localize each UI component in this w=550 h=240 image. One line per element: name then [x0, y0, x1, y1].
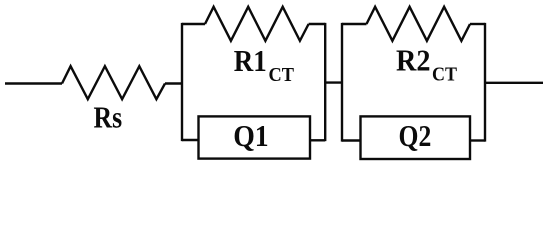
wire: block 2 left vertical junction [341, 23, 343, 142]
svg-text:Q2: Q2 [399, 118, 432, 153]
wire: block 2 bottom-right horizontal [470, 139, 485, 141]
wire: right lead [485, 82, 543, 84]
wire: block 1 bottom-right horizontal [310, 139, 325, 141]
resistor Rs [62, 66, 165, 99]
wire: block 2 right vertical junction [484, 23, 486, 142]
resistor R2_CT [367, 7, 471, 41]
wire: block 2 top-right horizontal [470, 23, 485, 25]
wire: left lead [5, 82, 62, 84]
svg-text:CT: CT [269, 64, 295, 86]
wire: block 2 bottom-left horizontal [342, 139, 361, 141]
wire: Rs to parallel block 1 (node A) [165, 82, 182, 84]
svg-text:Q1: Q1 [233, 118, 269, 153]
wire: block 1 left vertical junction [181, 23, 183, 141]
CPE Q1 box [199, 116, 311, 158]
CPE Q2 box [361, 116, 471, 159]
wire: connector node between block 1 and block 2 [325, 81, 342, 83]
resistor R1_CT [205, 7, 309, 41]
wire: block 1 top-right horizontal [309, 23, 326, 25]
svg-text:CT: CT [432, 64, 458, 86]
wire: block 2 top-left horizontal [342, 23, 367, 25]
svg-text:R1: R1 [234, 43, 267, 78]
svg-text:R2: R2 [396, 42, 431, 77]
wire: block 1 top-left horizontal [182, 23, 205, 25]
wire: block 1 right vertical junction [324, 23, 326, 141]
wire: block 1 bottom-left horizontal [182, 139, 199, 141]
svg-text:Rs: Rs [94, 100, 123, 135]
